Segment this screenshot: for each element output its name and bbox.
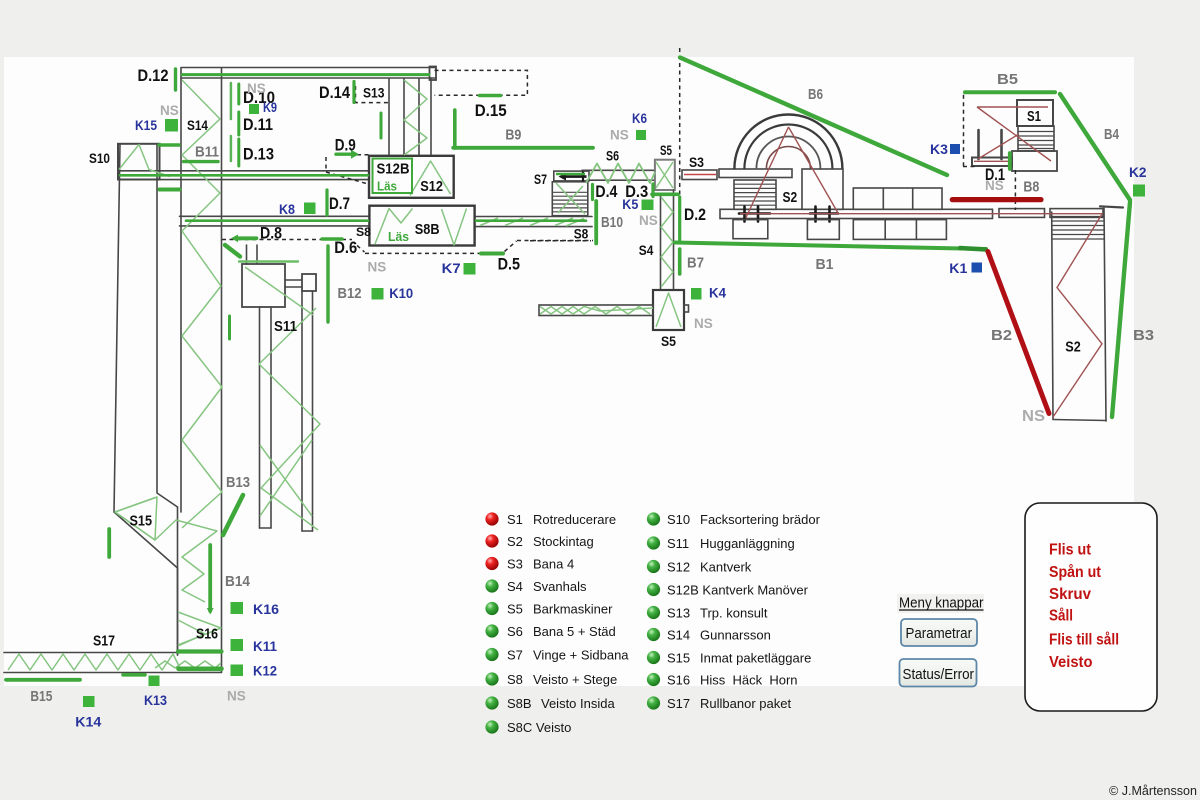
- svg-text:S15: S15: [667, 651, 690, 666]
- legend ball S8: [485, 672, 498, 685]
- svg-text:S2: S2: [783, 189, 798, 206]
- S8B box vee right: [442, 209, 467, 246]
- B3 long line: [1112, 202, 1130, 417]
- K12 square: [231, 665, 244, 677]
- S1 green bar: [1008, 153, 1012, 169]
- black bold D labels: [138, 66, 1006, 274]
- S7 ladder box: [552, 182, 588, 216]
- svg-text:Svanhals: Svanhals: [533, 579, 587, 594]
- svg-text:NS: NS: [160, 103, 179, 118]
- S5 box underline: [652, 193, 678, 197]
- svg-text:K2: K2: [1129, 164, 1147, 180]
- legend column 1: [485, 512, 629, 735]
- D.2 sensor bar: [678, 197, 681, 241]
- svg-text:Stockintag: Stockintag: [533, 534, 594, 549]
- svg-text:S7: S7: [507, 648, 523, 663]
- S7 ladder rungs: [552, 192, 588, 212]
- green bar left of S13 tower: [380, 113, 383, 138]
- svg-text:D.15: D.15: [475, 101, 507, 120]
- left duct inner wall: [157, 144, 178, 507]
- svg-text:S8: S8: [574, 225, 589, 241]
- svg-text:S13: S13: [667, 606, 690, 621]
- svg-text:Bana 4: Bana 4: [533, 557, 574, 572]
- dashed vertical B5/K3: [963, 95, 977, 167]
- legend ball S17: [647, 696, 660, 709]
- svg-text:B2: B2: [991, 327, 1012, 344]
- svg-text:Facksortering brädor: Facksortering brädor: [700, 512, 821, 527]
- thin scanned red lines: [684, 107, 1103, 417]
- svg-text:Veisto + Stege: Veisto + Stege: [533, 672, 617, 687]
- veisto S8B box: [369, 206, 474, 246]
- dashed line D.5: [365, 252, 480, 254]
- B1 end cap: [960, 248, 986, 250]
- K10 square: [372, 288, 384, 300]
- D.15 sensor segment: [480, 94, 501, 98]
- kantverk S12B manover box: [369, 156, 454, 198]
- S11 drop strip A: [259, 307, 261, 528]
- svg-text:B9: B9: [505, 127, 521, 144]
- S1 lower box: [1012, 151, 1057, 171]
- svg-text:Skruv: Skruv: [1049, 586, 1091, 603]
- bin box below S2 left: [733, 220, 768, 239]
- svg-text:B10: B10: [601, 214, 623, 231]
- svg-text:K5: K5: [622, 196, 638, 212]
- svg-text:B14: B14: [225, 573, 251, 590]
- svg-text:Läs: Läs: [388, 229, 409, 244]
- svg-text:B1: B1: [816, 256, 834, 273]
- green line above S11 box: [239, 260, 298, 262]
- svg-text:K7: K7: [442, 260, 461, 276]
- D.8 arrow head: [231, 235, 238, 243]
- svg-text:S7: S7: [534, 171, 547, 187]
- svg-text:S6: S6: [507, 624, 523, 639]
- S5 bottom chevron: [656, 293, 681, 327]
- svg-text:S12B Kantverk Manöver: S12B Kantverk Manöver: [667, 583, 809, 598]
- S5 bottom notch: [684, 305, 689, 312]
- S11 feeder prongs: [246, 245, 248, 264]
- D.8 sensor arrow: [238, 236, 257, 240]
- thick green overlay bars: [6, 58, 1130, 680]
- svg-text:S5: S5: [660, 142, 672, 158]
- svg-text:K4: K4: [709, 285, 726, 301]
- svg-text:NS: NS: [368, 260, 387, 275]
- svg-text:S2: S2: [507, 534, 523, 549]
- top beam green line: [182, 73, 429, 76]
- svg-text:NS: NS: [227, 689, 246, 704]
- svg-text:S13: S13: [363, 85, 385, 101]
- svg-text:Veisto: Veisto: [1049, 654, 1093, 671]
- S16 triangle big: [178, 612, 221, 645]
- svg-text:NS: NS: [985, 178, 1004, 193]
- B8 red line: [952, 197, 1041, 202]
- svg-text:K14: K14: [75, 714, 101, 730]
- forklift base: [972, 158, 1012, 167]
- svg-text:D.8: D.8: [260, 224, 282, 243]
- svg-text:S17: S17: [93, 633, 115, 650]
- K6 square: [636, 130, 646, 140]
- B14 arrow tip: [207, 608, 214, 615]
- S1 ladder: [1018, 126, 1054, 151]
- legend ball S1: [485, 512, 498, 525]
- svg-text:S5: S5: [507, 602, 523, 617]
- svg-text:S2: S2: [1065, 339, 1081, 356]
- legend ball S12B: [647, 583, 660, 596]
- K2 square: [1133, 185, 1145, 197]
- svg-text:K16: K16: [253, 601, 279, 617]
- K13 dash: [123, 673, 145, 677]
- roller line segment 3: [1050, 209, 1103, 218]
- svg-text:Gunnarsson: Gunnarsson: [700, 628, 771, 643]
- B2 red diagonal: [988, 252, 1049, 414]
- green diagonal below D.8: [225, 245, 240, 257]
- K4 square: [691, 288, 702, 300]
- roller line segment 2: [999, 209, 1045, 218]
- svg-text:D.9: D.9: [335, 136, 356, 155]
- svg-text:D.11: D.11: [243, 115, 273, 134]
- sorting table bar: [539, 305, 653, 316]
- svg-text:K12: K12: [253, 663, 277, 679]
- thick red overlay lines: [952, 200, 1049, 414]
- B4 diagonal: [1060, 94, 1130, 200]
- S5 top box cross: [656, 162, 673, 188]
- sorter S10 box: [118, 144, 160, 180]
- K3 blue square: [950, 144, 960, 154]
- svg-text:B13: B13: [226, 474, 250, 491]
- svg-text:NS: NS: [610, 128, 629, 143]
- S13 tower zigzag: [404, 80, 427, 155]
- svg-text:B6: B6: [808, 86, 823, 103]
- dashed box S13 label: [356, 86, 390, 103]
- svg-text:NS: NS: [1022, 408, 1045, 425]
- svg-text:Hugganläggning: Hugganläggning: [700, 536, 795, 551]
- band hatch strokes: [480, 218, 584, 226]
- B15 sensor line: [6, 678, 80, 682]
- tower column x221: [221, 68, 223, 672]
- B6 long diagonal: [680, 58, 947, 176]
- svg-text:B15: B15: [30, 688, 52, 705]
- svg-text:Bana 5 + Städ: Bana 5 + Städ: [533, 624, 616, 639]
- D.12 sensor bar: [174, 69, 177, 90]
- svg-text:Meny knappar: Meny knappar: [899, 595, 984, 612]
- svg-text:S8B: S8B: [507, 696, 532, 711]
- svg-text:D.6: D.6: [334, 238, 357, 257]
- svg-text:Parametrar: Parametrar: [906, 625, 973, 642]
- barkmaskin S5 top box: [655, 160, 675, 190]
- svg-text:Hiss Häck Horn: Hiss Häck Horn: [700, 673, 798, 688]
- svg-text:B5: B5: [997, 71, 1018, 88]
- svg-text:S11: S11: [667, 536, 689, 551]
- legend ball S14: [647, 628, 660, 641]
- svg-text:B3: B3: [1133, 327, 1154, 344]
- svg-text:S6: S6: [606, 148, 619, 164]
- tower column x181: [180, 68, 182, 512]
- S11 side block: [302, 274, 316, 291]
- svg-text:S15: S15: [130, 513, 153, 530]
- svg-text:S8: S8: [507, 672, 523, 687]
- svg-text:Barkmaskiner: Barkmaskiner: [533, 602, 613, 617]
- top beam of sorting deck: [181, 67, 436, 69]
- B9 vertical bar: [453, 110, 457, 148]
- red info text: [1049, 542, 1119, 672]
- svg-text:D.12: D.12: [138, 66, 169, 85]
- K14 square: [83, 696, 95, 707]
- B14 sensor bar: [208, 545, 212, 611]
- D.5 sensor bar: [481, 252, 503, 256]
- S17 deck zigzag: [8, 654, 180, 670]
- S16 triangle small: [178, 620, 205, 646]
- legend ball S8B: [485, 696, 498, 709]
- roller line red stripe: [740, 213, 1103, 215]
- dashed vertical at B6 start: [679, 48, 681, 236]
- svg-text:S5: S5: [661, 333, 676, 349]
- legend column 2: [647, 512, 821, 711]
- green bar below band: [160, 188, 180, 192]
- svg-text:D.2: D.2: [684, 205, 706, 224]
- svg-text:B11: B11: [195, 144, 219, 161]
- svg-text:S4: S4: [639, 242, 654, 258]
- vinge S7 box: [554, 171, 589, 181]
- left duct outer edge wall: [114, 144, 178, 655]
- dashed link D.5 to S8: [505, 241, 517, 252]
- svg-text:Veisto Insida: Veisto Insida: [541, 696, 615, 711]
- svg-text:S8B: S8B: [415, 221, 440, 238]
- svg-text:Status/Error: Status/Error: [903, 666, 975, 683]
- D.7 sensor bar: [325, 190, 328, 215]
- svg-text:K8: K8: [279, 201, 295, 217]
- svg-text:S1: S1: [1027, 108, 1041, 125]
- svg-text:S14: S14: [667, 628, 690, 643]
- green bar above S10: [159, 143, 179, 147]
- black bold S labels: [89, 85, 1081, 650]
- svg-text:Flis till såll: Flis till såll: [1049, 632, 1119, 649]
- S17 roller deck lines: [4, 652, 178, 654]
- small bar left of S11: [228, 316, 231, 339]
- light gray NS labels: [160, 81, 1045, 704]
- svg-text:D.4: D.4: [595, 182, 617, 201]
- B13 thick diagonal: [223, 495, 243, 535]
- svg-text:K3: K3: [930, 141, 948, 157]
- S12B box chevron: [410, 161, 451, 196]
- svg-text:K11: K11: [253, 638, 277, 654]
- sorting table zigzag: [540, 307, 650, 315]
- S12B inner green frame: [373, 159, 413, 194]
- S3 red line: [684, 174, 716, 176]
- svg-text:K15: K15: [135, 117, 157, 133]
- sensor dash column A: [230, 83, 233, 161]
- svg-text:Vinge + Sidbana: Vinge + Sidbana: [533, 648, 629, 663]
- svg-text:Spån ut: Spån ut: [1049, 564, 1101, 581]
- S14 tower zigzag: [182, 80, 222, 528]
- legend ball S8C: [485, 720, 498, 733]
- bana4 S3 bar 1: [682, 170, 717, 180]
- svg-text:Kantverk: Kantverk: [700, 560, 752, 575]
- K16 square: [231, 602, 244, 614]
- K11 square: [231, 639, 244, 651]
- svg-text:S4: S4: [507, 579, 523, 594]
- svg-text:S12: S12: [667, 560, 690, 575]
- legend ball S16: [647, 673, 660, 686]
- svg-text:NS: NS: [694, 316, 713, 331]
- legend ball S12: [647, 560, 660, 573]
- svg-text:B7: B7: [687, 255, 704, 272]
- K5 square: [642, 200, 654, 211]
- right tower red zigzag: [1053, 214, 1102, 417]
- S2 right box: [802, 169, 843, 209]
- legend ball S11: [647, 536, 660, 549]
- strip cross lines: [260, 440, 312, 516]
- S7 ladder diagonals: [556, 183, 585, 214]
- svg-text:S17: S17: [667, 696, 690, 711]
- legend ball S15: [647, 651, 660, 664]
- svg-text:D.7: D.7: [329, 194, 350, 213]
- conveyor band S8 level left: [180, 215, 370, 217]
- D.9 arrow: [336, 152, 351, 155]
- green command squares: [83, 104, 1145, 707]
- svg-text:K6: K6: [632, 110, 647, 126]
- sorting table reverse zigzag: [540, 307, 653, 315]
- D.3 sensor bar: [651, 184, 654, 197]
- B7 sensor bar: [678, 249, 682, 274]
- blue K labels: [75, 99, 1146, 730]
- svg-text:K13: K13: [144, 692, 167, 708]
- legend ball S6: [485, 624, 498, 637]
- dashed vertical B8: [1014, 170, 1016, 210]
- dashed link D.9 to S12B: [326, 155, 369, 184]
- D.4 sensor bar: [591, 185, 594, 200]
- svg-text:D.14: D.14: [319, 83, 350, 102]
- bin boxes above roller: [853, 188, 942, 209]
- K7 square: [464, 263, 476, 275]
- thin scanned green machine zigzags: [8, 80, 681, 670]
- svg-text:S12: S12: [420, 178, 443, 195]
- channel wall x177: [177, 507, 179, 655]
- svg-text:S8C Veisto: S8C Veisto: [507, 720, 571, 735]
- D.9 arrow head: [351, 150, 359, 159]
- svg-text:S12B: S12B: [377, 160, 410, 177]
- svg-text:S16: S16: [667, 673, 690, 688]
- S6 band zigzag: [586, 164, 655, 184]
- K13 square: [149, 676, 160, 687]
- svg-text:K10: K10: [389, 285, 413, 301]
- scanned paper area: [4, 57, 1134, 686]
- svg-text:B4: B4: [1104, 126, 1120, 143]
- conveyor band B11 level: [118, 170, 369, 172]
- svg-text:K1: K1: [949, 260, 967, 276]
- dashed construction lines: [222, 48, 1015, 253]
- S17 small zigzag: [155, 661, 221, 668]
- legend ball S5: [485, 602, 498, 615]
- S15 triangle: [115, 497, 157, 540]
- svg-text:Läs: Läs: [377, 179, 397, 194]
- right tower top cap: [1100, 206, 1123, 207]
- B1 long line: [675, 243, 986, 250]
- legend ball S7: [485, 648, 498, 661]
- svg-text:K9: K9: [263, 99, 277, 115]
- green Las labels: [377, 179, 409, 245]
- arch red vee: [746, 127, 838, 218]
- svg-text:D.13: D.13: [243, 145, 274, 164]
- svanhals S4 channel walls: [660, 195, 662, 290]
- right tower bottom: [1053, 420, 1106, 421]
- svg-text:S10: S10: [89, 150, 110, 166]
- dashed line D.8: [222, 239, 352, 241]
- roller tie marks group 1: [739, 207, 770, 222]
- K15 square: [165, 119, 178, 132]
- S11 side bar: [285, 279, 302, 281]
- B12 long bar: [326, 246, 329, 322]
- S10 triangle: [119, 145, 170, 177]
- svg-text:S8: S8: [356, 225, 371, 239]
- B10 sensor bar: [594, 201, 598, 244]
- B13 drop chain: [259, 308, 320, 530]
- dashed link S8B corner to D.5: [357, 246, 365, 253]
- band S8 green line: [186, 219, 368, 222]
- dashed drop line at S4: [530, 240, 591, 242]
- S7 green line: [556, 173, 585, 175]
- S15 chute zigzag: [115, 497, 217, 602]
- trp konsult S13 tower columns: [388, 79, 390, 156]
- svg-text:NS: NS: [639, 213, 658, 228]
- svg-text:S1: S1: [507, 512, 523, 527]
- S16 upper green bar: [178, 649, 222, 653]
- right tower S2 walls: [1052, 212, 1053, 419]
- S15 sensor bar: [107, 529, 111, 557]
- B9 horizontal line: [453, 146, 593, 150]
- svg-text:Trp. konsult: Trp. konsult: [700, 606, 768, 621]
- gray B labels: [30, 71, 1154, 705]
- conveyor band S8 level right of S8B box: [475, 216, 592, 218]
- svg-text:Inmat paketläggare: Inmat paketläggare: [700, 651, 811, 666]
- svg-text:Flis ut: Flis ut: [1049, 542, 1091, 559]
- S7 black arrow: [566, 172, 587, 182]
- B5 line: [965, 90, 1055, 94]
- S4 channel zigzag: [661, 197, 673, 287]
- roller line segment 1: [720, 209, 993, 218]
- K1 blue square: [972, 263, 983, 273]
- B11 sensor bar: [184, 160, 219, 163]
- stockintag arch arcs: [734, 115, 842, 169]
- svg-text:D.5: D.5: [498, 255, 520, 274]
- svg-text:NS: NS: [247, 81, 266, 96]
- meny knappar backing: [897, 594, 984, 613]
- svg-text:S16: S16: [196, 625, 218, 642]
- S11 feed diagonal: [245, 267, 313, 315]
- svg-text:B8: B8: [1023, 179, 1039, 196]
- D.14 sensor bar: [352, 82, 355, 103]
- legend ball S3: [485, 557, 498, 570]
- svg-text:S10: S10: [667, 512, 690, 527]
- bin box below S2 right: [807, 220, 839, 240]
- svg-text:S14: S14: [187, 117, 208, 133]
- svg-text:Rotreducerare: Rotreducerare: [533, 512, 616, 527]
- S11 hugg box: [242, 264, 285, 307]
- legend ball S4: [485, 579, 498, 592]
- S5 bottom box: [653, 290, 684, 330]
- right tower ladder rungs: [1052, 217, 1105, 240]
- dashed line S8 to B10: [517, 240, 593, 242]
- S2 left ladder box: [734, 180, 776, 209]
- svg-text:© J.Mårtensson: © J.Mårtensson: [1109, 783, 1197, 798]
- legend ball S2: [485, 534, 498, 547]
- roller tie marks group 2: [810, 207, 838, 222]
- bana5 S6 band: [582, 169, 655, 171]
- beam end cap: [430, 67, 437, 81]
- S16 lower green bar: [179, 666, 222, 671]
- K8 square: [304, 203, 316, 215]
- paketinlast S1 top box: [1017, 100, 1053, 126]
- svg-text:S11: S11: [274, 318, 297, 335]
- dashed box D.15: [435, 70, 528, 95]
